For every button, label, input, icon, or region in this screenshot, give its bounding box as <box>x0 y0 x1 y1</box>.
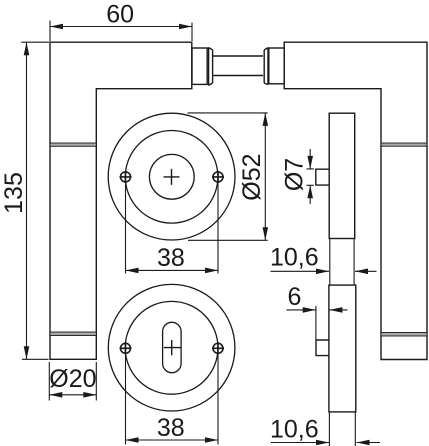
svg-text:135: 135 <box>0 172 28 214</box>
arrow 38 bottom right <box>205 437 218 443</box>
right handle body (top view mirrored L-shape) <box>284 42 427 359</box>
bottom rosette outer circle <box>108 284 235 411</box>
dimension D20 lines <box>49 362 96 401</box>
arrow 10,6 upper left-pointing <box>355 269 368 275</box>
arrow D52 up <box>263 113 269 126</box>
left handle flange <box>209 47 213 85</box>
arrow 60 right <box>179 24 192 30</box>
keyhole stadium <box>163 322 182 372</box>
arrow 6 left-pointing <box>329 307 342 313</box>
dimension 38 bottom lines <box>126 354 219 445</box>
arrow 38 mid left <box>126 268 139 274</box>
arrow 135 down <box>24 346 30 359</box>
left handle neck <box>192 48 207 84</box>
svg-text:60: 60 <box>106 1 134 29</box>
svg-text:38: 38 <box>157 244 185 272</box>
middle rosette hub circle <box>149 154 194 199</box>
left grip upper gray band <box>50 143 96 146</box>
svg-text:10,6: 10,6 <box>270 416 319 444</box>
keyhole center cross <box>164 340 181 355</box>
right grip lower gray band <box>381 333 427 337</box>
svg-text:38: 38 <box>157 414 185 442</box>
side-view rosette lower rectangle <box>329 285 356 412</box>
arrow 10,6 lower left-pointing <box>357 440 370 446</box>
right grip upper gray band <box>381 143 427 146</box>
arrow D52 down <box>263 227 269 240</box>
arrow 135 up <box>24 42 30 55</box>
bottom rosette left screw <box>120 342 132 354</box>
bottom rosette inner circle <box>125 301 218 394</box>
svg-text:Ø7: Ø7 <box>280 158 308 191</box>
dimension 60 lines <box>50 21 192 42</box>
arrow D7 down <box>307 156 313 169</box>
arrow 38 bottom left <box>126 437 139 443</box>
svg-text:Ø52: Ø52 <box>238 153 266 200</box>
dimension 10,6 upper lines <box>271 239 377 286</box>
arrow 38 mid right <box>205 268 218 274</box>
arrow 60 left <box>50 24 63 30</box>
arrowheads <box>24 24 370 446</box>
dimension texts <box>0 1 319 444</box>
dimension 38 middle lines <box>126 182 219 274</box>
middle rosette left screw <box>120 171 132 183</box>
side-view rosette upper rectangle <box>329 113 355 238</box>
dimension D52 lines <box>188 113 268 240</box>
right handle neck <box>269 48 284 84</box>
side-view upper screw boss tab <box>316 169 329 185</box>
middle rosette bolt circle <box>125 131 218 224</box>
right handle flange <box>264 48 268 85</box>
arrow 6 right-pointing <box>303 307 316 313</box>
arrow D20 left <box>49 392 62 398</box>
side-view lower cylinder tab <box>316 340 329 356</box>
left grip lower gray band <box>50 332 96 336</box>
left handle body (top view L-shape) <box>50 42 192 359</box>
svg-text:10,6: 10,6 <box>270 244 319 272</box>
middle rosette center cross <box>164 169 180 185</box>
middle rosette outer circle <box>108 113 235 240</box>
dimension 6 lines <box>287 306 348 340</box>
bottom rosette right screw <box>212 342 224 354</box>
arrow D20 right <box>83 392 96 398</box>
dimension D7 lines <box>307 149 314 204</box>
middle rosette right screw <box>212 171 224 183</box>
arrow D7 up <box>307 185 313 198</box>
svg-text:6: 6 <box>287 283 301 311</box>
arrow 10,6 upper right-pointing <box>316 269 329 275</box>
arrow 10,6 lower right-pointing <box>316 440 329 446</box>
svg-text:Ø20: Ø20 <box>49 365 96 393</box>
spindle <box>213 56 263 76</box>
dimension 135 lines <box>21 42 49 359</box>
dimension 10,6 lower lines <box>271 412 380 446</box>
